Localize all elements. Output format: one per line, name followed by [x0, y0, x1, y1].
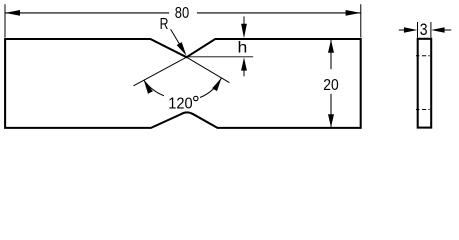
arrowhead 20 down [328, 114, 334, 127]
reference line at notch tip level (h dim) [187, 56, 254, 58]
specimen plate outline (front view with V-notches) [5, 39, 361, 128]
arrowhead 3 left [404, 27, 418, 33]
construction line notch flank extension down-left [134, 57, 187, 86]
svg-text:3: 3 [420, 21, 428, 39]
arrowhead 3 right [431, 27, 445, 33]
angle arc right segment [200, 78, 222, 98]
angle arc left segment [144, 80, 164, 96]
dimension line 80 left segment [5, 12, 169, 14]
h upper arrow stem [243, 17, 245, 26]
svg-text:h: h [238, 40, 248, 57]
arrowhead arc left [144, 80, 153, 94]
arrowhead 80 left [5, 10, 20, 16]
extension line 3 right [430, 22, 432, 38]
dimension line 20 upper segment [330, 40, 332, 69]
arrowhead h down [241, 24, 247, 39]
svg-text:R: R [160, 16, 169, 33]
arrowhead R leader [177, 42, 187, 56]
arrowhead h up [241, 57, 247, 70]
centerline upper (notch plane) [416, 55, 430, 57]
arrowhead 20 up [328, 40, 334, 53]
extension line right (for 80 dim) [360, 4, 362, 37]
construction line notch flank extension down-right [187, 57, 230, 82]
centerline lower (notch plane) [416, 109, 430, 111]
dimension line 3 left [399, 29, 405, 31]
arrowhead arc right [212, 78, 221, 92]
dimension line 3 right [444, 29, 452, 31]
svg-text:20: 20 [323, 77, 338, 94]
h lower arrow stem [243, 65, 245, 76]
extension line left (for 80 dim) [4, 4, 6, 37]
dimension line 80 right segment [197, 12, 361, 14]
leader line from R to notch tip [171, 29, 180, 45]
dimension line 20 lower segment [330, 94, 332, 127]
svg-text:120: 120 [168, 95, 192, 112]
arrowhead 80 right [346, 10, 361, 16]
extension line 3 left [417, 22, 419, 38]
svg-text:80: 80 [175, 5, 189, 22]
side view rectangle [418, 39, 432, 128]
degree symbol of 120 label [194, 96, 198, 100]
